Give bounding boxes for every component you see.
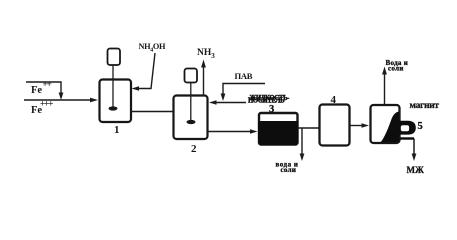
settler 3 vessel bbox=[258, 113, 299, 145]
svg-text:4: 4 bbox=[331, 94, 337, 106]
magnetic fluid blob in separator bbox=[381, 112, 400, 143]
svg-text:1: 1 bbox=[114, 124, 120, 136]
vent water and salts from separator bbox=[382, 67, 387, 106]
label water and salts (top) bbox=[386, 59, 409, 73]
svg-text:МЖ: МЖ bbox=[407, 165, 424, 175]
svg-text:ПАВ: ПАВ bbox=[235, 71, 253, 81]
svg-text:соли: соли bbox=[281, 166, 297, 174]
stirrer blade 2 bbox=[187, 120, 196, 124]
label carrier liquid (double-struck) bbox=[248, 95, 290, 105]
wire reactor1 to reactor2 bbox=[131, 111, 174, 113]
stream Fe3+ line bbox=[24, 98, 98, 103]
magnetic separator 5 vessel bbox=[371, 105, 400, 143]
reactor 1 vessel bbox=[100, 80, 132, 123]
svg-text:соли: соли bbox=[388, 65, 404, 73]
pipe carrier liquid into reactor 2 bbox=[209, 100, 246, 105]
stream Fe2+ line bbox=[26, 82, 63, 100]
svg-text:5: 5 bbox=[418, 121, 423, 132]
motor M2 bbox=[185, 69, 198, 83]
svg-text:магнит: магнит bbox=[410, 101, 440, 111]
wire reactor2 to settler3 bbox=[208, 129, 258, 134]
pipe PAV bbox=[221, 84, 265, 102]
stirrer blade 1 bbox=[109, 106, 118, 110]
reactor 2 vessel bbox=[174, 96, 208, 140]
pipe magnetic fluid out bbox=[400, 139, 416, 162]
stirrer shaft 2 bbox=[190, 83, 192, 122]
vent NH3 from reactor 2 bbox=[201, 60, 206, 97]
svg-text:+++: +++ bbox=[40, 99, 53, 109]
motor M1 bbox=[108, 49, 121, 66]
svg-text:НОСИТЕЛЬ: НОСИТЕЛЬ bbox=[248, 98, 285, 105]
svg-text:++: ++ bbox=[43, 79, 52, 89]
label water and salts (bottom) bbox=[276, 161, 299, 175]
svg-text:NH3: NH3 bbox=[197, 48, 215, 60]
magnet bump on separator wall bbox=[398, 121, 416, 135]
wire settler3 to unit4 bbox=[298, 127, 320, 129]
label Fe3+ bbox=[31, 99, 53, 117]
unit 4 vessel bbox=[320, 105, 350, 146]
drain water and salts from settler3 bbox=[300, 128, 305, 161]
wire unit4 to separator5 bbox=[350, 123, 369, 128]
pipe NH4OH into reactor 1 bbox=[132, 53, 156, 91]
svg-text:Fe: Fe bbox=[31, 85, 42, 96]
svg-text:NH4OH: NH4OH bbox=[139, 42, 166, 54]
stirrer shaft 1 bbox=[112, 65, 114, 108]
svg-text:2: 2 bbox=[191, 143, 197, 155]
label Fe2+ bbox=[31, 79, 52, 96]
